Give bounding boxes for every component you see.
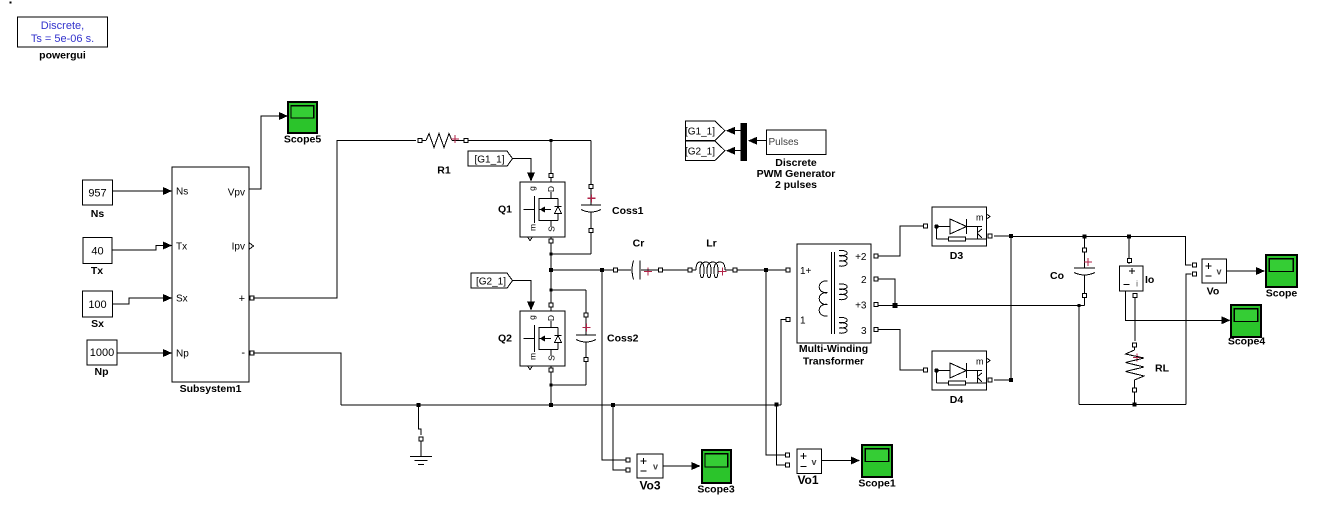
svg-text:957: 957 xyxy=(88,188,106,200)
svg-text:Discrete,: Discrete, xyxy=(41,20,84,32)
svg-text:Scope5: Scope5 xyxy=(284,134,322,146)
svg-text:+2: +2 xyxy=(855,252,867,263)
svg-text:Pulses: Pulses xyxy=(769,137,799,148)
svg-text:Scope4: Scope4 xyxy=(1228,336,1266,348)
svg-text:g: g xyxy=(527,186,537,191)
svg-text:40: 40 xyxy=(91,246,103,258)
svg-text:Multi-Winding: Multi-Winding xyxy=(799,343,868,355)
svg-text:Np: Np xyxy=(176,349,189,360)
svg-text:m: m xyxy=(976,213,984,223)
svg-text:Transformer: Transformer xyxy=(803,356,864,368)
svg-text:Ipv: Ipv xyxy=(232,242,245,253)
svg-text:+3: +3 xyxy=(855,301,867,312)
svg-text:-: - xyxy=(241,347,245,359)
svg-text:[G1_1]: [G1_1] xyxy=(474,155,504,166)
svg-text:powergui: powergui xyxy=(39,50,86,62)
svg-text:Lr: Lr xyxy=(706,238,717,250)
svg-text:1: 1 xyxy=(800,316,806,327)
svg-text:i: i xyxy=(1136,280,1138,289)
svg-text:D: D xyxy=(546,315,556,321)
svg-text:Vo1: Vo1 xyxy=(797,473,818,487)
svg-text:m: m xyxy=(527,224,537,231)
svg-text:Q2: Q2 xyxy=(498,333,512,345)
svg-text:[G2_1]: [G2_1] xyxy=(685,147,715,158)
svg-text:Io: Io xyxy=(1145,274,1154,286)
svg-text:D: D xyxy=(546,186,556,192)
svg-text:Scope: Scope xyxy=(1266,288,1298,300)
svg-text:+: + xyxy=(239,293,245,305)
svg-text:Cr: Cr xyxy=(633,238,645,250)
svg-text:Vpv: Vpv xyxy=(228,188,245,199)
svg-text:v: v xyxy=(811,457,816,467)
svg-text:m: m xyxy=(527,353,537,360)
svg-text:Scope1: Scope1 xyxy=(858,478,896,490)
svg-text:v: v xyxy=(1216,267,1221,277)
svg-text:Tx: Tx xyxy=(176,242,187,253)
svg-text:RL: RL xyxy=(1155,363,1170,375)
svg-text:Sx: Sx xyxy=(91,318,104,330)
svg-text:2 pulses: 2 pulses xyxy=(775,179,817,191)
svg-text:1000: 1000 xyxy=(90,347,114,359)
svg-text:Sx: Sx xyxy=(176,294,188,305)
svg-text:2: 2 xyxy=(861,275,867,286)
svg-text:[G2_1]: [G2_1] xyxy=(476,277,506,288)
svg-text:D3: D3 xyxy=(950,250,964,262)
svg-text:Coss2: Coss2 xyxy=(607,333,639,345)
svg-text:Ns: Ns xyxy=(91,208,105,220)
svg-text:Scope3: Scope3 xyxy=(697,484,735,496)
svg-text:R1: R1 xyxy=(437,165,451,177)
svg-text:3: 3 xyxy=(861,326,867,337)
svg-text:Vo3: Vo3 xyxy=(639,479,660,493)
svg-text:Subsystem1: Subsystem1 xyxy=(180,383,242,395)
svg-text:Ns: Ns xyxy=(176,187,188,198)
svg-text:Tx: Tx xyxy=(91,265,103,277)
svg-text:m: m xyxy=(976,357,984,367)
svg-text:Ts = 5e-06 s.: Ts = 5e-06 s. xyxy=(31,33,94,45)
svg-text:v: v xyxy=(653,462,658,472)
svg-text:D4: D4 xyxy=(950,394,964,406)
svg-text:1+: 1+ xyxy=(800,266,812,277)
svg-text:Vo: Vo xyxy=(1207,286,1220,298)
svg-text:[G1_1]: [G1_1] xyxy=(685,127,715,138)
svg-text:g: g xyxy=(527,315,537,320)
svg-text:Co: Co xyxy=(1050,270,1064,282)
svg-text:Np: Np xyxy=(95,366,109,378)
svg-text:100: 100 xyxy=(88,299,106,311)
svg-text:Q1: Q1 xyxy=(498,204,512,216)
svg-text:Coss1: Coss1 xyxy=(612,205,644,217)
